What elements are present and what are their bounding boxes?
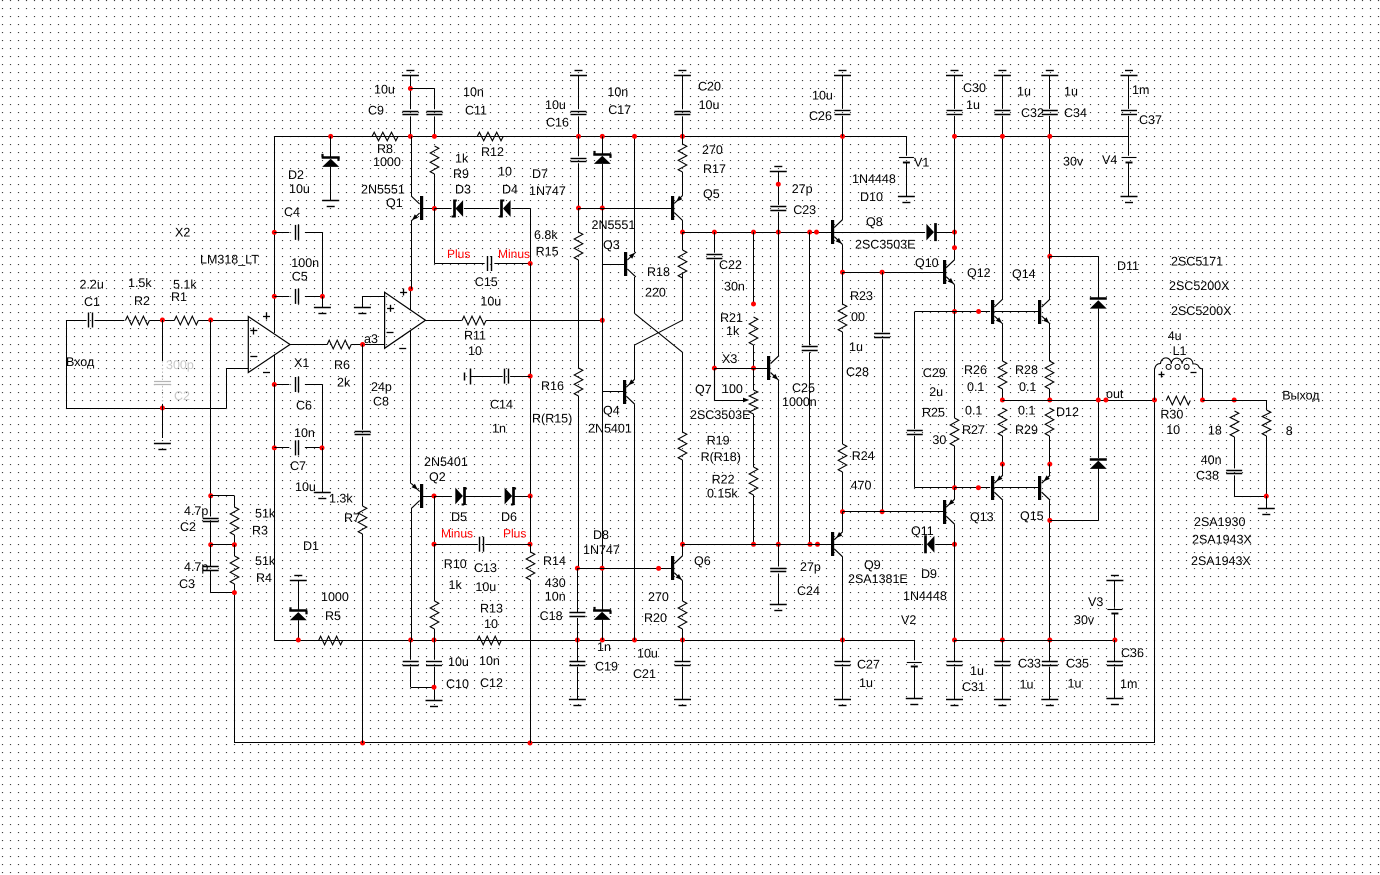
svg-text:R4: R4 — [256, 571, 272, 585]
svg-text:Q10: Q10 — [915, 256, 939, 270]
label R25 — [922, 406, 945, 420]
node Q1 base junction — [432, 206, 437, 211]
node isolated on Q10 collector — [952, 245, 957, 250]
capacitor C24 27p — [770, 569, 786, 572]
L1 plus mark — [1159, 372, 1165, 378]
label C19 — [595, 660, 618, 674]
node C11-R9 on bus — [432, 134, 437, 139]
capacitor C37 1m — [1121, 111, 1137, 115]
svg-text:Plus: Plus — [503, 527, 526, 541]
resistor R8 — [372, 132, 398, 141]
label Выход output — [1282, 389, 1320, 403]
node mid C2-C3 — [208, 542, 213, 547]
svg-text:0.1: 0.1 — [1019, 380, 1036, 394]
node C7 left — [272, 445, 277, 450]
node zobel-load ground — [1264, 494, 1269, 499]
wire bottom feedback rail — [234, 400, 1154, 743]
label 1000 value R5 — [321, 590, 349, 604]
label 2N5551 type of Q1 — [361, 183, 405, 197]
label 4u value L1 — [1168, 329, 1182, 343]
label R26 — [964, 363, 987, 377]
label 10u value C15 — [480, 295, 501, 309]
ground at a3 + input — [354, 308, 371, 314]
svg-text:2N5551: 2N5551 — [361, 183, 405, 197]
svg-text:R29: R29 — [1015, 423, 1038, 437]
wire Q8 emitter down — [842, 245, 844, 273]
node C6 left — [272, 382, 277, 387]
label 1.3k — [329, 492, 353, 506]
svg-text:2SC5200X: 2SC5200X — [1171, 304, 1232, 318]
node D11-D12 out — [1096, 398, 1101, 403]
label 10n value C12 — [479, 654, 500, 668]
potentiometer 100 resistor part — [749, 390, 758, 414]
svg-text:1N747: 1N747 — [529, 184, 566, 198]
label R3 — [252, 524, 268, 538]
label 300p ghosted — [166, 358, 194, 372]
wire R9 to Q1 base node — [434, 174, 436, 209]
node R21 top — [751, 230, 756, 235]
wire R25 bottom — [954, 446, 956, 488]
diode D12 — [1090, 460, 1107, 469]
label Q11 — [911, 524, 934, 538]
wire Q6 collector up — [682, 544, 684, 555]
zener diode D2 — [322, 154, 340, 167]
wire V3 top lead — [1114, 581, 1116, 608]
resistor R14 — [526, 552, 535, 580]
wire C11 to bus — [434, 116, 436, 136]
wire R17 to Q5 collector — [682, 172, 684, 196]
label C3 — [179, 577, 195, 591]
label 30n value C22 — [724, 280, 745, 294]
label L1 — [1173, 344, 1187, 358]
label D3 — [455, 183, 471, 197]
label C17 — [608, 103, 631, 117]
node C9-C11 link — [408, 86, 413, 91]
op-amp a3 outer plus — [400, 289, 407, 296]
svg-text:C11: C11 — [465, 104, 487, 118]
label R9 — [453, 167, 469, 181]
wire X3 wire — [714, 368, 767, 370]
label C15 — [475, 275, 498, 289]
label X2 designator — [175, 226, 190, 240]
wire V1 to ground — [906, 162, 908, 196]
capacitor C32 1u — [994, 111, 1010, 115]
label 0.1 value R26 — [967, 380, 984, 394]
wire Q5 base wire — [579, 208, 672, 210]
label 270 value R17 — [702, 143, 723, 157]
wire C5 ground lead — [322, 296, 324, 307]
svg-text:Выход: Выход — [1282, 389, 1320, 403]
label R13 — [480, 602, 503, 616]
label Minus electrode near D5 — [441, 527, 473, 541]
capacitor C6 10n — [296, 377, 299, 392]
svg-text:R15: R15 — [536, 245, 559, 259]
terminal above C26 — [834, 71, 851, 76]
wire Q14 emitter down to R28 — [1049, 324, 1051, 361]
wire Q5 collector down — [682, 221, 684, 233]
transistor Q8 2SC3503E — [831, 220, 843, 245]
node D7 top on bus — [600, 134, 605, 139]
svg-text:C32: C32 — [1021, 106, 1044, 120]
wire C25 bottom — [809, 352, 811, 544]
svg-text:C1: C1 — [84, 295, 100, 309]
capacitor C16 10u — [571, 112, 587, 115]
label 30v value V4 — [1063, 155, 1084, 169]
svg-text:2.2u: 2.2u — [80, 278, 104, 292]
svg-text:C35: C35 — [1066, 656, 1089, 670]
svg-text:R25: R25 — [922, 406, 945, 420]
wire R15 top lead — [578, 208, 580, 232]
capacitor C20 10u — [674, 112, 690, 115]
resistor R10 — [430, 601, 439, 629]
wire X1 Vminus to C6 — [274, 384, 289, 386]
label 1.5k value of R2 — [128, 276, 152, 290]
svg-text:C4: C4 — [284, 205, 300, 219]
node R19 bottom — [680, 542, 685, 547]
ground below C33 — [994, 700, 1011, 706]
transistor Q3 2N5551 — [624, 252, 636, 277]
label 2N5551 type Q3 — [592, 218, 636, 232]
svg-text:10n: 10n — [463, 85, 484, 99]
wire Q13 collector down to rail — [1002, 500, 1004, 640]
label 2u value C29 — [929, 385, 943, 399]
label 27p value C23 — [792, 182, 813, 196]
label 10 value R30 — [1166, 423, 1180, 437]
label 30 value R25 — [932, 433, 946, 447]
wire R28 to out — [1049, 389, 1051, 400]
wire C29 top loop — [915, 312, 955, 429]
svg-text:27p: 27p — [792, 182, 813, 196]
node R22 bottom — [751, 542, 756, 547]
label Q8 — [866, 215, 883, 229]
wire C28 bottom — [882, 339, 884, 512]
transistor Q11 2SA1381E — [943, 499, 955, 524]
wire C12 top lead — [434, 640, 436, 660]
label R24 — [852, 449, 875, 463]
resistor R1 — [174, 316, 198, 325]
node junction R1 right — [208, 318, 213, 323]
label C33 of C33 — [1018, 656, 1041, 670]
svg-text:4u: 4u — [1168, 329, 1182, 343]
svg-text:10u: 10u — [475, 580, 496, 594]
label 10n near R14 — [545, 590, 566, 604]
label C13 — [474, 561, 497, 575]
wire load bottom — [1266, 436, 1268, 496]
label R11 — [464, 329, 486, 343]
label 51k value R4 — [255, 554, 276, 568]
svg-text:Вход: Вход — [66, 355, 95, 369]
wire C31 top lead — [954, 640, 956, 661]
label 00 value R23 — [851, 310, 865, 324]
node D1 on rail — [296, 638, 301, 643]
node R21 mid — [751, 302, 756, 307]
label Q4 — [603, 404, 620, 418]
wire C6-C7 left column — [274, 385, 276, 641]
wire C30 column bus to D10 — [954, 136, 956, 232]
node C35 on rail — [1047, 638, 1052, 643]
label 1u value C30 — [966, 98, 980, 112]
wire to output ground — [1266, 496, 1268, 508]
label C21 — [633, 667, 656, 681]
wire R17 top lead — [682, 136, 684, 144]
wire C20 top lead — [682, 76, 684, 109]
label 10u value C9 — [374, 83, 395, 97]
label 1u of C35 — [1068, 677, 1082, 691]
svg-text:R11: R11 — [464, 329, 486, 343]
wire R27 to Q13 emitter — [1002, 436, 1004, 464]
wire R14 bottom to bottom rail — [530, 580, 532, 743]
node isolated on bases wire — [976, 485, 981, 490]
wire C23 top lead — [778, 171, 780, 205]
resistor 8 load — [1262, 410, 1271, 436]
wire C32 column — [1002, 136, 1004, 299]
svg-text:R10: R10 — [444, 557, 467, 571]
capacitor C2 4.7p — [203, 519, 219, 522]
label 4.7p value C3 — [184, 560, 208, 574]
terminal above C34 — [1041, 71, 1058, 76]
node R10-C12 on rail — [432, 638, 437, 643]
label 220 value R18 — [645, 286, 666, 300]
svg-text:X3: X3 — [722, 352, 737, 366]
svg-text:0.1: 0.1 — [1018, 404, 1035, 418]
svg-text:10n: 10n — [545, 590, 566, 604]
svg-text:51k: 51k — [255, 507, 276, 521]
label R14 — [543, 554, 566, 568]
capacitor C1 — [89, 313, 93, 328]
label Q10 — [915, 256, 939, 270]
node C18-C19 on rail — [575, 638, 580, 643]
label Q14 — [1012, 267, 1036, 281]
wire Q2 node to D5 — [434, 496, 452, 498]
svg-text:10: 10 — [468, 344, 482, 358]
label C5 — [292, 270, 308, 284]
wire Q15 collector down — [1049, 500, 1051, 640]
node C22 top — [712, 230, 717, 235]
wire D9 to column — [935, 544, 954, 546]
svg-text:D5: D5 — [451, 510, 467, 524]
label C26 — [809, 109, 832, 123]
label 5.1k value of R1 — [173, 278, 197, 292]
svg-text:R13: R13 — [480, 602, 503, 616]
svg-text:V1: V1 — [914, 156, 929, 170]
svg-text:C22: C22 — [719, 258, 742, 272]
capacitor C4 — [296, 225, 299, 240]
ground below V1 — [898, 197, 915, 203]
op-amp a3 inner minus — [387, 332, 394, 334]
ground below V4 — [1121, 197, 1138, 203]
label R27 — [962, 423, 985, 437]
capacitor C36 1m — [1107, 662, 1123, 666]
svg-text:2u: 2u — [929, 385, 943, 399]
op-amp a3 inner plus — [387, 305, 394, 312]
node isolated on Q6 base wire — [656, 566, 661, 571]
node Q2 base junction — [432, 494, 437, 499]
wire Q2 node down — [434, 496, 436, 544]
svg-text:C13: C13 — [474, 561, 497, 575]
wire L1 right leg — [1202, 369, 1204, 400]
resistor R16 — [574, 368, 583, 396]
svg-text:C20: C20 — [698, 80, 721, 94]
terminal above C30 — [946, 71, 963, 76]
svg-text:C12: C12 — [480, 676, 503, 690]
wire R16 down to Q6 base wire — [578, 396, 580, 568]
resistor R19 — [678, 432, 687, 460]
wire Q7 emitter down — [778, 381, 780, 545]
wire C10 top lead — [410, 640, 412, 660]
wire C7 row left — [274, 447, 289, 449]
transistor Q7 2SC3503E — [767, 356, 779, 381]
node C33 on rail — [1000, 638, 1005, 643]
svg-text:1u: 1u — [859, 676, 873, 690]
svg-text:2SA1381E: 2SA1381E — [848, 572, 908, 586]
battery V1 — [899, 158, 914, 163]
svg-text:C5: C5 — [292, 270, 308, 284]
wire Q1 emitter down to a3 V+ — [410, 221, 413, 289]
label 2N5401 type Q4 — [588, 422, 632, 436]
wire D10 to C30 column — [937, 232, 955, 234]
svg-text:R7: R7 — [344, 511, 360, 525]
label 51k value R3 — [255, 507, 276, 521]
label 430 value R14 — [545, 576, 566, 590]
svg-text:C14: C14 — [490, 397, 513, 411]
wire Q9 collector down to rail — [842, 557, 844, 640]
label R28 — [1015, 363, 1038, 377]
wire C2 ghost to ground loop — [162, 404, 164, 438]
svg-text:C19: C19 — [595, 660, 618, 674]
node X3 right — [751, 366, 756, 371]
label 1k value R9 — [455, 152, 469, 166]
label 2.2u value of C1 — [80, 278, 104, 292]
wire C33 to ground — [1002, 667, 1004, 700]
node R26-R27 out — [1000, 398, 1005, 403]
label Q7 — [695, 383, 712, 397]
wire D12 branch — [1050, 468, 1099, 521]
svg-text:C34: C34 — [1064, 106, 1087, 120]
label C38 — [1196, 469, 1219, 483]
label R29 — [1015, 423, 1038, 437]
wire C26 top lead — [842, 75, 844, 109]
capacitor C7 10u — [296, 440, 299, 455]
wire R3 bottom to mid node — [211, 535, 235, 545]
node junction C2 bottom on ground loop — [160, 406, 165, 411]
node extra near C25 bottom — [815, 542, 820, 547]
node rail-R7 column — [360, 741, 365, 746]
label Q1 — [386, 196, 403, 210]
wire R1 to X1 +input — [198, 320, 248, 322]
label 10 value R11 — [468, 344, 482, 358]
label 10n value C17 — [607, 85, 628, 99]
node R24-Q9 emitter — [840, 509, 845, 514]
svg-text:1000: 1000 — [321, 590, 349, 604]
svg-text:C8: C8 — [373, 395, 389, 409]
label 2SA1381E type Q9 — [848, 572, 908, 586]
wire C22 to X3 node — [714, 260, 716, 368]
svg-text:R28: R28 — [1015, 363, 1038, 377]
label 2SA1943X type 2 — [1191, 554, 1251, 568]
label V4 — [1102, 153, 1117, 167]
ground below C24 — [770, 605, 787, 611]
wire Q1 collector up to bus — [411, 136, 413, 196]
resistor R3 — [230, 507, 239, 535]
wire rail y640 left segment — [274, 640, 914, 642]
svg-text:R(R15): R(R15) — [532, 412, 572, 426]
label C22 — [719, 258, 742, 272]
wire C15 to right node — [494, 263, 530, 265]
node Q15 collector D12 branch — [1047, 518, 1052, 523]
label 1N747 type D7 — [529, 184, 566, 198]
wire Q12-Q14 base link — [994, 311, 1039, 313]
capacitor C2 300p ghosted — [154, 361, 171, 404]
wire stub to Q4 base — [602, 391, 623, 393]
label D10 — [860, 190, 883, 204]
svg-text:C23: C23 — [793, 203, 816, 217]
node D9 right — [952, 542, 957, 547]
wire D3 to D4 — [464, 208, 499, 210]
svg-text:1000n: 1000n — [782, 395, 817, 409]
wire C21 to ground — [682, 667, 684, 700]
capacitor C15 10u — [488, 256, 492, 271]
capacitor C10 10u — [403, 662, 419, 666]
wire C19 top lead — [577, 640, 579, 661]
svg-text:10: 10 — [498, 165, 512, 179]
wire R6 to a3 node — [351, 344, 384, 346]
capacitor C11 10n — [426, 112, 442, 115]
label 10u value C16 — [545, 98, 566, 112]
node D8 on rail — [600, 638, 605, 643]
label R12 — [481, 145, 504, 159]
wire R2 to R1 — [149, 320, 174, 322]
ground below C35 — [1041, 700, 1058, 706]
resistor R23 — [838, 304, 847, 332]
svg-text:10u: 10u — [289, 182, 310, 196]
wire C36 to ground — [1114, 667, 1116, 699]
transistor Q12 2SC5200 — [991, 299, 1003, 324]
svg-text:Q7: Q7 — [695, 383, 712, 397]
wire C6 right corner — [305, 385, 323, 448]
svg-text:30v: 30v — [1074, 613, 1095, 627]
capacitor C13 10u — [480, 537, 484, 552]
node C7 right — [320, 445, 325, 450]
label Q6 — [694, 554, 711, 568]
svg-text:V3: V3 — [1088, 595, 1103, 609]
wire input left — [66, 320, 87, 322]
svg-text:a3: a3 — [364, 332, 378, 346]
svg-text:D6: D6 — [501, 510, 517, 524]
diode D9 1N4448 — [926, 535, 935, 553]
wire C27 top lead — [842, 640, 844, 661]
wire R4 top — [234, 545, 236, 556]
label C23 — [793, 203, 816, 217]
wire D10 node to Q10 collector — [954, 232, 956, 260]
label 470 value R24 — [851, 479, 872, 493]
label C25 — [792, 381, 815, 395]
potentiometer wiper arrow — [714, 368, 749, 402]
label D5 — [451, 510, 467, 524]
svg-text:Q6: Q6 — [694, 554, 711, 568]
svg-text:10u: 10u — [637, 647, 658, 661]
label 27p value C24 — [800, 560, 821, 574]
label C29 — [923, 366, 946, 380]
svg-text:1u: 1u — [1020, 677, 1034, 691]
label D9 — [921, 567, 937, 581]
svg-text:1u: 1u — [970, 664, 984, 678]
wire C13 left lead — [434, 544, 478, 546]
label C2 ghosted — [174, 389, 190, 403]
label 10u value C10 — [448, 655, 469, 669]
zener diode D1 — [289, 607, 307, 620]
label C31 of C31 — [962, 680, 985, 694]
label C8 — [373, 395, 389, 409]
